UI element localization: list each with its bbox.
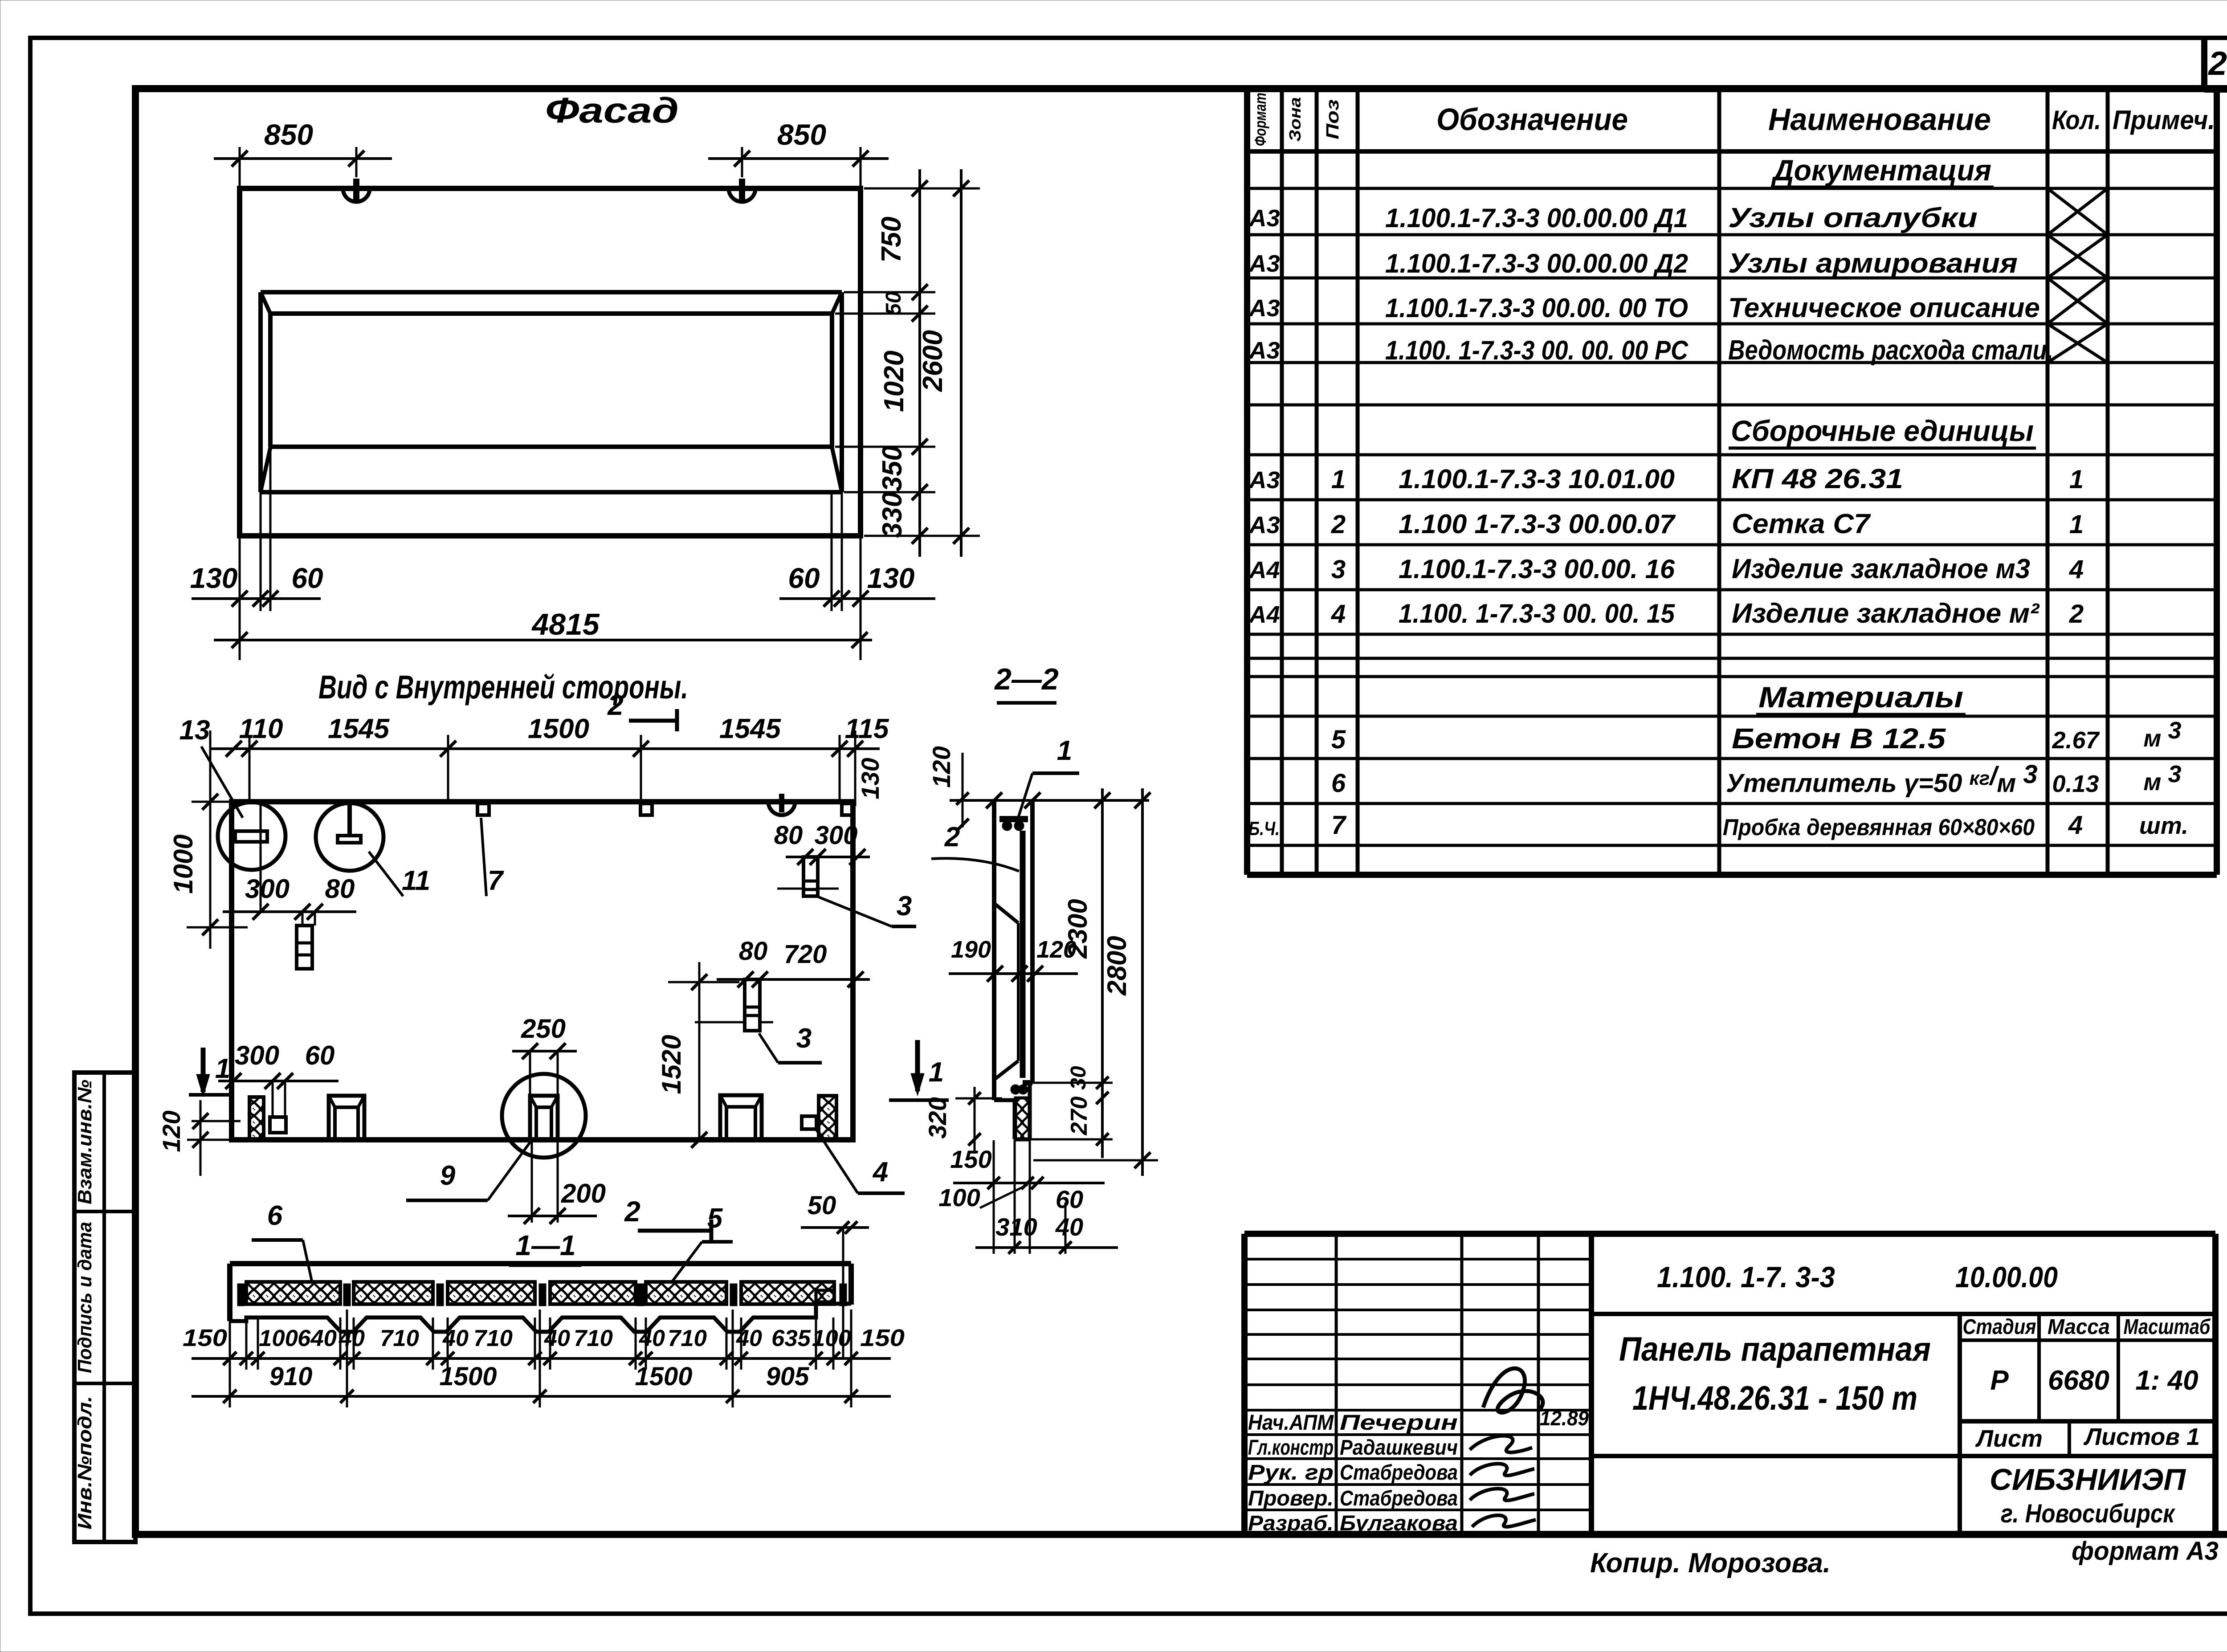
embedded item middle right xyxy=(695,979,773,1031)
svg-text:330: 330 xyxy=(877,492,908,538)
svg-text:905: 905 xyxy=(766,1362,810,1391)
embedded item upper left xyxy=(297,926,312,969)
svg-text:Узлы армирования: Узлы армирования xyxy=(1728,248,2018,279)
svg-text:Стабредова: Стабредова xyxy=(1340,1461,1458,1485)
svg-text:1.100. 1-7. 3-3: 1.100. 1-7. 3-3 xyxy=(1657,1260,1835,1293)
svg-text:12.89: 12.89 xyxy=(1540,1407,1589,1430)
svg-text:710: 710 xyxy=(473,1326,513,1351)
svg-text:А4: А4 xyxy=(1248,557,1280,583)
svg-text:635: 635 xyxy=(771,1326,811,1351)
svg-text:1500: 1500 xyxy=(439,1362,497,1391)
facade dimension 4815 xyxy=(214,608,872,648)
svg-text:Листов 1: Листов 1 xyxy=(2083,1424,2200,1450)
dimension 1000 left xyxy=(168,730,248,949)
svg-text:Пробка деревянная 60×80×60: Пробка деревянная 60×80×60 xyxy=(1723,815,2035,840)
callout 3 upper xyxy=(819,891,916,926)
svg-text:СИБЗНИИЭП: СИБЗНИИЭП xyxy=(1990,1463,2186,1497)
section 1-1 callouts 6 5 50 xyxy=(252,1191,869,1358)
callout 4 xyxy=(816,1130,905,1193)
svg-text:4: 4 xyxy=(2069,555,2084,584)
svg-text:60: 60 xyxy=(1056,1185,1083,1213)
svg-text:850: 850 xyxy=(264,118,313,151)
svg-text:50: 50 xyxy=(808,1191,836,1220)
svg-text:640: 640 xyxy=(298,1326,337,1351)
svg-text:270: 270 xyxy=(1066,1097,1092,1136)
section 2-2 body xyxy=(994,800,1032,1139)
svg-text:7: 7 xyxy=(1331,811,1347,840)
dimension 80/300 upper right xyxy=(774,821,870,865)
svg-text:80: 80 xyxy=(774,821,803,850)
svg-text:1500: 1500 xyxy=(635,1362,692,1391)
facade title xyxy=(545,90,679,130)
svg-text:1000: 1000 xyxy=(168,834,198,893)
svg-text:1: 1 xyxy=(1331,465,1346,494)
svg-text:Копир. Морозова.: Копир. Морозова. xyxy=(1590,1548,1831,1579)
svg-text:29: 29 xyxy=(2207,45,2227,82)
facade panel outline xyxy=(240,188,861,536)
svg-text:Обозначение: Обозначение xyxy=(1436,102,1628,137)
svg-text:2: 2 xyxy=(944,822,960,853)
svg-text:5: 5 xyxy=(707,1203,723,1234)
svg-text:2: 2 xyxy=(1331,510,1346,539)
svg-text:Гл.констр: Гл.констр xyxy=(1248,1436,1334,1460)
svg-text:320: 320 xyxy=(923,1097,951,1138)
svg-text:300: 300 xyxy=(245,874,290,904)
svg-text:13: 13 xyxy=(179,715,210,746)
svg-text:100: 100 xyxy=(938,1183,980,1211)
svg-text:910: 910 xyxy=(269,1362,313,1391)
svg-text:КП 48 26.31: КП 48 26.31 xyxy=(1732,464,1903,494)
insulation block right xyxy=(819,1096,836,1140)
svg-text:5: 5 xyxy=(1331,725,1346,754)
title block texts xyxy=(1619,1260,2211,1528)
section 2-2 bottom dimensions xyxy=(938,1140,1118,1254)
dimension 320 xyxy=(923,1087,1002,1154)
svg-text:1.100.1-7.3-3 00.00.00 Д2: 1.100.1-7.3-3 00.00.00 Д2 xyxy=(1385,249,1688,278)
specification table grid xyxy=(1247,89,2217,875)
margin note kopir xyxy=(1590,1548,1831,1579)
section label 1-1 xyxy=(509,1229,581,1265)
svg-text:Печерин: Печерин xyxy=(1340,1411,1458,1435)
svg-text:1НЧ.48.26.31 - 150 т: 1НЧ.48.26.31 - 150 т xyxy=(1632,1379,1917,1417)
svg-text:40: 40 xyxy=(1055,1213,1083,1241)
svg-text:Фасад: Фасад xyxy=(545,90,679,130)
svg-text:1520: 1520 xyxy=(657,1035,686,1094)
title block signatures xyxy=(1248,1368,1589,1535)
svg-text:Панель парапетная: Панель парапетная xyxy=(1619,1330,1931,1368)
svg-text:4: 4 xyxy=(2068,811,2083,840)
specification table rows xyxy=(1248,154,2188,840)
svg-text:Вид с Внутренней стороны.: Вид с Внутренней стороны. xyxy=(318,669,688,706)
svg-text:115: 115 xyxy=(845,714,889,744)
svg-text:720: 720 xyxy=(784,940,827,969)
svg-text:Узлы опалубки: Узлы опалубки xyxy=(1728,203,1978,233)
dimension 120 bottom left xyxy=(157,1100,241,1176)
svg-text:1—1: 1—1 xyxy=(515,1229,575,1261)
svg-text:50: 50 xyxy=(882,291,905,315)
svg-text:1.100 1-7.3-3 00.00.07: 1.100 1-7.3-3 00.00.07 xyxy=(1399,509,1676,539)
svg-text:130: 130 xyxy=(867,562,915,594)
svg-text:1545: 1545 xyxy=(328,714,390,744)
anchor circles 13 and 11 xyxy=(201,746,383,871)
svg-text:2300: 2300 xyxy=(1063,899,1093,959)
svg-text:1.100.1-7.3-3 00.00. 16: 1.100.1-7.3-3 00.00. 16 xyxy=(1399,554,1675,584)
dimension 850 right xyxy=(708,118,889,188)
svg-text:710: 710 xyxy=(574,1326,613,1351)
svg-text:2: 2 xyxy=(2069,600,2084,628)
embedded plates on top edge xyxy=(477,794,853,815)
callout 9 xyxy=(406,1141,531,1200)
svg-text:6: 6 xyxy=(267,1200,283,1231)
inner view top dimension chain xyxy=(179,714,889,806)
svg-text:1.100.1-7.3-3 00.00. 00 ТО: 1.100.1-7.3-3 00.00. 00 ТО xyxy=(1385,293,1688,323)
dimension 250 xyxy=(512,1014,577,1096)
svg-text:Примеч.: Примеч. xyxy=(2113,105,2215,135)
svg-text:310: 310 xyxy=(995,1213,1037,1241)
svg-text:2—2: 2—2 xyxy=(994,662,1059,696)
svg-text:Изделие закладное м3: Изделие закладное м3 xyxy=(1732,554,2030,584)
svg-text:110: 110 xyxy=(239,714,283,744)
svg-text:Взам.инв.№: Взам.инв.№ xyxy=(74,1080,96,1204)
svg-text:6680: 6680 xyxy=(2048,1365,2109,1396)
callout 3 lower xyxy=(759,1023,822,1063)
svg-text:1020: 1020 xyxy=(879,351,910,412)
svg-text:Р: Р xyxy=(1990,1365,2009,1396)
svg-text:60: 60 xyxy=(305,1040,335,1070)
svg-text:0.13: 0.13 xyxy=(2052,771,2099,797)
svg-text:2800: 2800 xyxy=(1102,936,1132,995)
channel box 1 xyxy=(329,1096,364,1140)
svg-text:750: 750 xyxy=(876,216,907,262)
dimension 200 xyxy=(508,1140,606,1224)
dimension 850 left xyxy=(214,118,392,188)
left margin stamp strip xyxy=(74,1073,135,1542)
svg-text:150: 150 xyxy=(860,1325,905,1351)
facade recess xyxy=(261,292,842,492)
svg-text:1.100. 1-7.3-3 00. 00. 15: 1.100. 1-7.3-3 00. 00. 15 xyxy=(1399,599,1676,628)
svg-text:Масса: Масса xyxy=(2048,1315,2110,1339)
svg-text:Б.Ч.: Б.Ч. xyxy=(1248,818,1280,840)
svg-text:120: 120 xyxy=(927,746,955,787)
svg-text:200: 200 xyxy=(561,1179,606,1208)
svg-text:250: 250 xyxy=(521,1014,566,1044)
svg-text:Ведомость расхода стали.: Ведомость расхода стали. xyxy=(1728,335,2053,366)
bottom embedded items left xyxy=(249,1097,286,1140)
inner view title xyxy=(318,669,688,706)
channel box 2 circled xyxy=(530,1096,558,1140)
svg-text:4: 4 xyxy=(1331,600,1346,628)
svg-text:А3: А3 xyxy=(1248,512,1280,538)
svg-text:2600: 2600 xyxy=(918,330,948,392)
svg-text:Техническое описание: Техническое описание xyxy=(1728,293,2040,323)
callout 2 xyxy=(931,822,1019,871)
svg-text:Масштаб: Масштаб xyxy=(2124,1315,2211,1339)
lifting loop right xyxy=(729,179,755,202)
svg-text:80: 80 xyxy=(325,874,355,904)
svg-text:А4: А4 xyxy=(1248,601,1280,628)
callout 7 xyxy=(481,818,504,896)
svg-text:3: 3 xyxy=(796,1023,812,1054)
svg-text:Зона: Зона xyxy=(1286,97,1304,142)
svg-text:1500: 1500 xyxy=(528,714,589,744)
svg-text:1: 1 xyxy=(929,1057,944,1088)
title block grid xyxy=(1244,1234,2215,1534)
callout 1 top xyxy=(1017,735,1079,820)
svg-text:А3: А3 xyxy=(1248,467,1280,494)
lifting loop left xyxy=(343,179,370,202)
specification table header xyxy=(1251,93,2215,146)
svg-text:40: 40 xyxy=(736,1326,762,1351)
svg-text:А3: А3 xyxy=(1248,337,1280,364)
margin note format xyxy=(2072,1537,2219,1566)
svg-text:Стабредова: Стабредова xyxy=(1340,1487,1458,1510)
svg-text:350: 350 xyxy=(877,445,908,491)
section mark 2 top xyxy=(607,689,677,731)
svg-text:Материалы: Материалы xyxy=(1758,681,1963,714)
svg-text:шт.: шт. xyxy=(2139,812,2188,839)
facade dimension 60/130 right xyxy=(779,492,935,660)
svg-text:А3: А3 xyxy=(1248,295,1280,322)
svg-text:80: 80 xyxy=(739,937,768,966)
svg-text:40: 40 xyxy=(544,1326,570,1351)
svg-text:60: 60 xyxy=(291,562,323,594)
svg-text:1545: 1545 xyxy=(719,714,781,744)
svg-text:Лист: Лист xyxy=(1975,1425,2043,1452)
svg-text:1.100. 1-7.3-3 00. 00. 00 РС: 1.100. 1-7.3-3 00. 00. 00 РС xyxy=(1385,335,1689,365)
channel box 3 xyxy=(720,1095,762,1140)
svg-text:Стадия: Стадия xyxy=(1963,1315,2036,1339)
detail circle 9 xyxy=(502,1074,586,1158)
svg-text:120: 120 xyxy=(157,1110,185,1152)
section 1-1 dimension chains xyxy=(183,1309,905,1407)
callout 11 xyxy=(369,852,430,896)
svg-text:2: 2 xyxy=(624,1195,640,1228)
svg-text:1: 1 xyxy=(1057,735,1072,766)
section 1-1 body xyxy=(230,1264,851,1332)
svg-text:3: 3 xyxy=(897,891,912,922)
svg-text:300: 300 xyxy=(235,1040,279,1070)
section 2-2 right chains xyxy=(1031,788,1158,1176)
svg-text:130: 130 xyxy=(190,562,238,594)
svg-text:1.100.1-7.3-3 10.01.00: 1.100.1-7.3-3 10.01.00 xyxy=(1399,464,1675,494)
svg-text:1: 1 xyxy=(2069,465,2084,494)
facade dimension 130/60 left xyxy=(190,447,323,660)
svg-text:Сетка С7: Сетка С7 xyxy=(1732,509,1871,539)
svg-text:7: 7 xyxy=(488,865,504,896)
svg-text:А3: А3 xyxy=(1248,250,1280,277)
svg-text:30: 30 xyxy=(1067,1066,1090,1090)
svg-text:1: 1 xyxy=(215,1053,230,1084)
svg-text:710: 710 xyxy=(380,1326,419,1351)
dimension 300/60 lower left xyxy=(218,1040,339,1117)
svg-text:Наименование: Наименование xyxy=(1768,102,1991,137)
svg-text:Формат: Формат xyxy=(1251,93,1269,146)
dimension 190/120 xyxy=(949,936,1078,982)
svg-text:190: 190 xyxy=(951,936,991,963)
svg-text:Провер.: Провер. xyxy=(1248,1487,1334,1510)
svg-text:Рук. гр: Рук. гр xyxy=(1248,1461,1334,1485)
section mark 1 left xyxy=(189,1048,232,1097)
svg-text:Изделие закладное м²: Изделие закладное м² xyxy=(1732,598,2039,629)
svg-text:2: 2 xyxy=(607,689,624,721)
embedded washer item 4 xyxy=(802,1116,816,1129)
svg-text:150: 150 xyxy=(183,1325,227,1351)
svg-text:710: 710 xyxy=(668,1326,707,1351)
svg-text:1.100.1-7.3-3 00.00.00 Д1: 1.100.1-7.3-3 00.00.00 Д1 xyxy=(1385,203,1688,233)
svg-text:10.00.00: 10.00.00 xyxy=(1955,1260,2058,1293)
facade right dimension chains xyxy=(835,169,980,557)
section mark 1 right xyxy=(889,1040,949,1100)
svg-text:А3: А3 xyxy=(1248,205,1280,232)
svg-text:130: 130 xyxy=(856,758,884,799)
svg-text:Нач.АПМ: Нач.АПМ xyxy=(1248,1411,1334,1435)
svg-text:100: 100 xyxy=(812,1326,851,1351)
svg-text:2.67: 2.67 xyxy=(2052,727,2100,754)
section 2-2 top ticks and 120 xyxy=(927,746,1150,831)
inner view panel outline xyxy=(232,802,853,1140)
embedded item upper right xyxy=(777,857,839,896)
section mark 2 bottom xyxy=(624,1195,711,1241)
svg-text:850: 850 xyxy=(777,118,826,151)
svg-text:1: 40: 1: 40 xyxy=(2135,1365,2198,1396)
svg-text:4815: 4815 xyxy=(531,608,600,641)
svg-text:6: 6 xyxy=(1331,769,1346,798)
svg-text:Кол.: Кол. xyxy=(2052,105,2101,135)
sheet number box 29 xyxy=(2204,38,2227,90)
dimension 300/80 upper left xyxy=(223,802,356,926)
svg-text:Радашкевич: Радашкевич xyxy=(1340,1436,1458,1460)
section title 2-2 xyxy=(994,662,1059,703)
svg-text:Булгакова: Булгакова xyxy=(1340,1512,1458,1535)
svg-text:3: 3 xyxy=(1331,555,1346,584)
svg-text:Поз: Поз xyxy=(1323,99,1342,139)
svg-text:100: 100 xyxy=(259,1326,298,1351)
svg-text:4: 4 xyxy=(872,1157,888,1187)
svg-text:40: 40 xyxy=(639,1326,665,1351)
svg-text:г. Новосибирск: г. Новосибирск xyxy=(2001,1499,2175,1528)
svg-text:Инв.№подл.: Инв.№подл. xyxy=(74,1396,96,1530)
svg-text:11: 11 xyxy=(402,865,430,896)
svg-text:Документация: Документация xyxy=(1771,154,1991,187)
svg-text:300: 300 xyxy=(815,821,858,850)
dimension 80/720 right xyxy=(717,937,870,987)
svg-text:Разраб.: Разраб. xyxy=(1248,1512,1334,1535)
svg-text:1: 1 xyxy=(2069,510,2084,539)
svg-text:40: 40 xyxy=(442,1326,469,1351)
svg-text:Бетон В 12.5: Бетон В 12.5 xyxy=(1732,722,1946,755)
svg-text:формат А3: формат А3 xyxy=(2072,1537,2219,1566)
svg-text:Сборочные единицы: Сборочные единицы xyxy=(1731,414,2034,447)
svg-text:40: 40 xyxy=(339,1326,365,1351)
svg-text:60: 60 xyxy=(788,562,820,594)
svg-text:9: 9 xyxy=(440,1160,456,1191)
kol column crosses xyxy=(2048,188,2108,363)
svg-text:150: 150 xyxy=(950,1145,991,1173)
dimension 1520 xyxy=(657,962,739,1148)
svg-text:Подпись и дата: Подпись и дата xyxy=(74,1222,96,1373)
